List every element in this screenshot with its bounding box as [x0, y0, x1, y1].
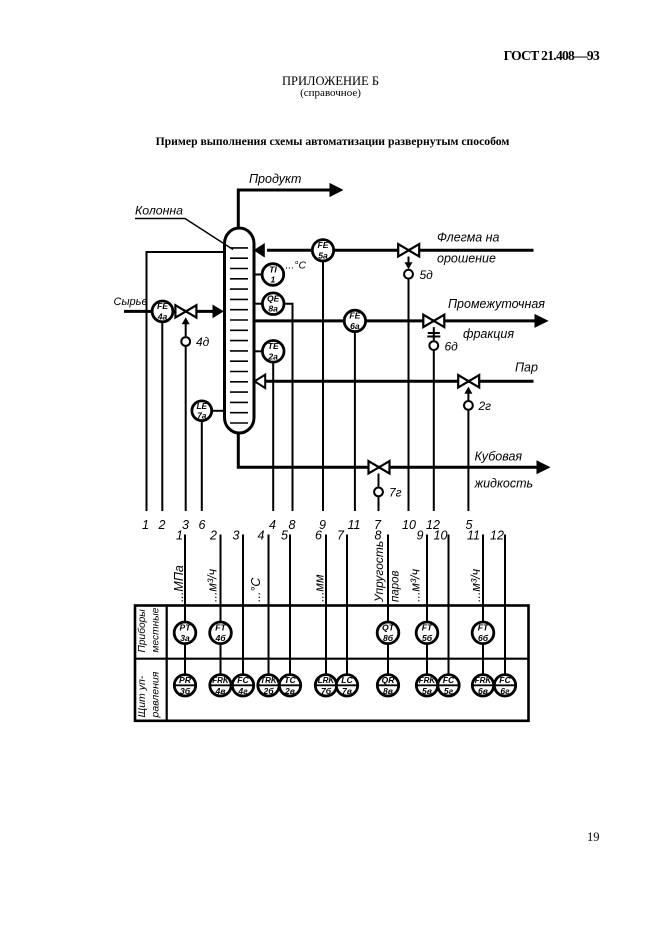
svg-text:4: 4 — [258, 529, 265, 543]
svg-text:2: 2 — [209, 529, 217, 543]
svg-text:Кубовая: Кубовая — [475, 450, 523, 464]
instrument LE 7a — [192, 401, 225, 421]
svg-text:5: 5 — [281, 529, 288, 543]
signal line 5 from valve 2г circle — [467, 408, 469, 511]
svg-text:...мм: ...мм — [313, 574, 327, 602]
svg-text:4а: 4а — [157, 311, 168, 321]
svg-text:FRK: FRK — [419, 676, 437, 685]
signal line 2 from FE4a — [161, 314, 163, 511]
svg-text:2г: 2г — [478, 399, 492, 413]
panel instrument LRK 7б — [315, 675, 336, 697]
svg-text:TRK: TRK — [260, 676, 278, 685]
instrument FE 4a — [152, 301, 173, 322]
svg-text:8а: 8а — [268, 304, 278, 314]
document code ГОСТ 21.408-93 — [0, 48, 599, 64]
svg-text:8б: 8б — [383, 633, 394, 643]
page number 19 — [587, 830, 600, 845]
svg-text:Пар: Пар — [515, 361, 538, 375]
svg-text:...м³/ч: ...м³/ч — [469, 568, 483, 602]
bottoms line (Кубовая жидкость) — [238, 432, 550, 491]
svg-text:...МПа: ...МПа — [172, 565, 186, 602]
local instrument PT 3а — [174, 622, 196, 644]
svg-text:7г: 7г — [389, 486, 402, 500]
svg-text:1: 1 — [176, 529, 183, 543]
label Колонна with leader line — [135, 204, 233, 250]
svg-text:FRK: FRK — [475, 676, 493, 685]
svg-text:...°С: ...°С — [286, 260, 307, 272]
local instrument FT 6б — [472, 622, 494, 644]
svg-text:7б: 7б — [321, 686, 332, 696]
panel instrument FC 4г — [232, 675, 253, 697]
svg-text:QT: QT — [382, 623, 395, 633]
svg-text:3а: 3а — [180, 633, 190, 643]
panel instrument LC 7в — [336, 675, 357, 697]
svg-text:4д: 4д — [196, 335, 210, 349]
svg-text:1: 1 — [142, 518, 149, 532]
table frame — [135, 606, 529, 721]
svg-text:4г: 4г — [237, 686, 248, 696]
svg-text:FE: FE — [318, 240, 329, 250]
signal line 8 from QE8a — [285, 304, 292, 511]
svg-text:8в: 8в — [383, 686, 393, 696]
signal line 9 from FE5a — [322, 253, 324, 511]
svg-text:PR: PR — [179, 675, 192, 685]
svg-text:12: 12 — [490, 529, 504, 543]
svg-text:FE: FE — [157, 301, 168, 311]
svg-text:LRK: LRK — [318, 676, 336, 685]
svg-text:QE: QE — [267, 294, 280, 304]
svg-text:4: 4 — [269, 518, 276, 532]
svg-text:5б: 5б — [422, 633, 433, 643]
svg-text:4в: 4в — [215, 686, 226, 696]
svg-text:PT: PT — [180, 623, 192, 633]
svg-text:местные: местные — [151, 607, 162, 652]
svg-text:TE: TE — [268, 341, 279, 351]
svg-text:3: 3 — [233, 529, 240, 543]
svg-text:...м³/ч: ...м³/ч — [409, 568, 423, 602]
signal line 12 from valve 6д circle — [433, 348, 435, 511]
svg-text:FRK: FRK — [212, 676, 230, 685]
svg-text:6в: 6в — [478, 686, 488, 696]
svg-text:4б: 4б — [214, 633, 226, 643]
svg-text:9: 9 — [417, 529, 424, 543]
control valve 6д — [423, 315, 458, 354]
column vessel (Колонна) — [225, 228, 255, 433]
instrument TI 1 — [254, 264, 284, 286]
svg-text:FT: FT — [422, 623, 433, 633]
svg-text:Колонна: Колонна — [135, 204, 183, 218]
svg-text:Промежуточная: Промежуточная — [448, 297, 545, 311]
svg-text:FC: FC — [443, 675, 455, 685]
svg-text:6а: 6а — [350, 321, 360, 331]
svg-text:7а: 7а — [197, 411, 207, 421]
local instrument QT 8б — [377, 622, 399, 644]
svg-text:фракция: фракция — [463, 327, 514, 341]
title — [0, 135, 661, 148]
svg-text:Щит уп-: Щит уп- — [136, 675, 148, 717]
svg-text:Приборы: Приборы — [136, 609, 148, 653]
heading ПРИЛОЖЕНИЕ Б — [0, 74, 661, 89]
lower signal lines into table — [185, 535, 505, 686]
svg-text:Упругость: Упругость — [372, 541, 386, 603]
svg-text:2: 2 — [158, 518, 166, 532]
svg-text:LC: LC — [341, 675, 353, 685]
table row header Щит управления — [136, 671, 162, 718]
signal line 4 from TE2a — [272, 354, 274, 511]
svg-text:2в: 2в — [284, 686, 295, 696]
svg-text:8: 8 — [375, 529, 382, 543]
panel instrument FC 5г — [438, 675, 459, 697]
svg-text:6: 6 — [199, 518, 206, 532]
signal line 6 from LE7a — [201, 414, 203, 511]
panel instrument TC 2в — [279, 675, 300, 697]
svg-text:10: 10 — [402, 518, 416, 532]
control valve 2г — [458, 375, 491, 413]
signal line 10 from valve 5д circle — [408, 277, 410, 511]
svg-text:11: 11 — [348, 518, 361, 532]
control valve 5д — [398, 244, 433, 282]
svg-text:6: 6 — [315, 529, 322, 543]
svg-text:5в: 5в — [422, 686, 432, 696]
svg-text:FE: FE — [349, 311, 360, 321]
upper break numbers — [142, 518, 473, 532]
svg-text:FC: FC — [237, 675, 249, 685]
control valve 4д — [175, 305, 209, 349]
steam line (Пар) — [255, 361, 538, 389]
signal line 7 from valve 7г circle — [378, 495, 380, 511]
subtitle (справочное) — [0, 87, 661, 99]
svg-text:...°С: ...°С — [249, 577, 263, 602]
instrument FE 5a — [312, 240, 333, 261]
svg-text:7: 7 — [337, 529, 345, 543]
svg-text:5г: 5г — [444, 686, 454, 696]
local instrument FT 4б — [210, 622, 232, 644]
local instrument FT 5б — [416, 622, 438, 644]
svg-text:5д: 5д — [420, 268, 434, 282]
signal line 3 from valve 4д circle — [185, 344, 187, 511]
svg-text:5а: 5а — [318, 250, 328, 260]
svg-text:равления: равления — [150, 671, 162, 718]
svg-text:FT: FT — [478, 623, 489, 633]
svg-text:2а: 2а — [267, 351, 278, 361]
top pressure tap signal line / line 1 — [147, 252, 225, 511]
signal line 11 from FE6a — [354, 324, 356, 511]
svg-text:10: 10 — [434, 529, 448, 543]
instrument FE 6a — [344, 310, 365, 331]
svg-text:...м³/ч: ...м³/ч — [206, 568, 220, 602]
svg-text:8: 8 — [289, 518, 296, 532]
svg-text:3б: 3б — [180, 686, 191, 696]
svg-text:Сырье: Сырье — [114, 296, 148, 308]
svg-text:3: 3 — [182, 518, 189, 532]
svg-text:QR: QR — [382, 675, 396, 685]
svg-text:6д: 6д — [445, 340, 459, 354]
svg-text:6б: 6б — [478, 633, 489, 643]
panel instrument QR 8в — [377, 675, 398, 697]
intermediate fraction line (Промежуточная фракция) — [254, 297, 549, 341]
svg-text:орошение: орошение — [437, 252, 496, 266]
feed line (Сырьё) — [114, 296, 224, 318]
svg-text:1: 1 — [271, 275, 276, 285]
panel instrument FRK 6в — [472, 675, 493, 697]
svg-text:жидкость: жидкость — [474, 477, 534, 491]
instrument QE 8a — [254, 293, 284, 315]
reflux line (Флегма на орошение) — [254, 231, 534, 266]
svg-text:Флегма на: Флегма на — [437, 231, 500, 245]
svg-text:11: 11 — [467, 529, 480, 543]
panel instrument FC 6г — [494, 675, 515, 697]
svg-text:паров: паров — [390, 570, 402, 602]
control valve 7г — [369, 461, 402, 499]
table row header Приборы местные — [136, 607, 162, 652]
svg-text:TC: TC — [284, 675, 296, 685]
svg-text:7в: 7в — [342, 686, 352, 696]
svg-text:6г: 6г — [500, 686, 510, 696]
panel instrument PR 3б — [174, 675, 195, 697]
panel instrument TRK 2б — [258, 675, 279, 697]
svg-text:2б: 2б — [262, 686, 274, 696]
lower break numbers — [176, 529, 504, 543]
product line (Продукт) — [238, 172, 343, 229]
svg-text:FT: FT — [215, 623, 226, 633]
panel instrument FRK 5в — [416, 675, 437, 697]
instrument TE 2a — [254, 341, 284, 363]
svg-text:TI: TI — [269, 264, 277, 274]
panel instrument FRK 4в — [210, 675, 231, 697]
svg-text:Продукт: Продукт — [249, 172, 301, 186]
svg-text:FC: FC — [499, 675, 511, 685]
svg-text:LE: LE — [196, 401, 207, 411]
